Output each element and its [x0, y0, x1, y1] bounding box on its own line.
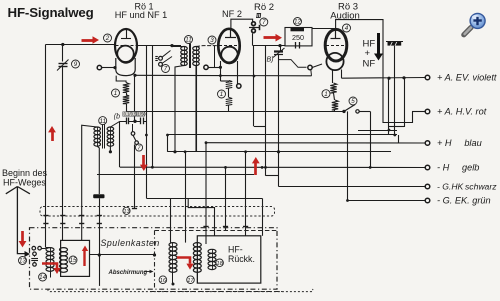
bus y=135	[168, 134, 398, 136]
wire x=196	[196, 66, 198, 152]
label circled 12	[294, 18, 302, 26]
wire x=167.5	[167, 135, 169, 152]
tube NF2 envelope	[218, 29, 239, 63]
wire stair y=207.6	[188, 198, 214, 236]
red arrow 3 (up, left)	[51, 131, 54, 141]
svg-text:15: 15	[70, 257, 77, 264]
svg-text:9: 9	[74, 61, 78, 68]
svg-text:- G.HK schwarz: - G.HK schwarz	[437, 182, 497, 192]
svg-text:0,1/0,5: 0,1/0,5	[124, 111, 137, 116]
T2 bottom-right lead	[109, 146, 111, 152]
bus y=174.6	[97, 174, 254, 176]
tube Rö3 lower circle	[326, 53, 343, 70]
grid terminal G1	[97, 65, 101, 69]
svg-text:Spulenkasten: Spulenkasten	[101, 238, 160, 248]
label circled 17	[187, 276, 195, 284]
tube Rö1 envelope	[115, 29, 137, 63]
tube NF2 grid terminal	[204, 65, 208, 69]
terminal + A. EV. violett	[425, 75, 430, 80]
red arrow 6 (down)	[21, 231, 24, 242]
wire x=412 + rot terminal lead	[412, 112, 414, 124]
coil16/17 bottom stubs	[172, 272, 174, 284]
label circled 15	[69, 256, 77, 264]
tube Rö3 anode resistor chain	[332, 70, 334, 83]
tube Rö1 lower envelope	[116, 58, 135, 76]
shield box Spulenkasten	[30, 228, 278, 290]
svg-text:2: 2	[105, 35, 110, 42]
NF2 grid top wire + switch	[231, 19, 253, 29]
bus grün y=200.5	[348, 200, 426, 202]
wire y=127	[389, 126, 404, 128]
label circled 9	[72, 60, 80, 68]
wire x=225.5 box2 feed	[225, 167, 227, 230]
T1 primary terminals	[159, 56, 163, 60]
svg-text:7: 7	[164, 66, 168, 73]
switch S7 (T2)	[131, 132, 135, 136]
coil L18	[212, 249, 214, 269]
cap connection leads	[129, 121, 141, 123]
svg-text:+ A. H.V. rot: + A. H.V. rot	[437, 107, 487, 117]
grid capacitor box 250	[285, 28, 312, 46]
wire y=75	[135, 74, 312, 77]
wire anode line y=78 to violett terminal	[342, 77, 426, 80]
svg-text:HF-: HF-	[228, 245, 243, 255]
wire trimmer to tube3 cathode terminal	[279, 58, 307, 68]
connector blob	[93, 194, 104, 198]
wire foot x=206	[203, 226, 208, 228]
wire x=404 down	[404, 78, 406, 127]
tube NF2 anode circle	[221, 47, 238, 64]
terminal + H&#160;&#160;&#160;&#160;&#160;blau	[425, 141, 430, 146]
svg-text:HF-Signalweg: HF-Signalweg	[8, 5, 94, 20]
svg-text:7: 7	[262, 19, 266, 26]
label circled 5	[349, 97, 357, 105]
label circled 18	[216, 259, 224, 267]
wire x=389	[388, 78, 390, 135]
dotted connector strip	[40, 207, 275, 217]
wires into inner box	[245, 232, 247, 236]
black arrow HF+NF	[377, 33, 380, 55]
wire x=347.5 grün feed	[347, 111, 349, 200]
svg-text:4: 4	[345, 25, 349, 32]
label circled 3	[208, 36, 216, 44]
label circled 2	[104, 34, 112, 42]
transformer T1 left coil	[184, 47, 186, 66]
antenna	[6, 187, 18, 194]
junction dots	[166, 134, 169, 137]
T1 bottom-right lead	[195, 66, 197, 152]
svg-text:1: 1	[220, 91, 223, 98]
svg-text:Rückk.: Rückk.	[228, 254, 255, 264]
wire x=278.5 schwarz feed	[278, 55, 280, 187]
switch (wave selector)	[32, 246, 36, 250]
dotted bottom line	[48, 289, 313, 292]
wire y=126.3	[254, 126, 266, 128]
wire coil16 feed	[170, 198, 172, 242]
svg-text:- G. EK. grün: - G. EK. grün	[437, 196, 491, 206]
red arrow 5 (up, mid)	[254, 162, 257, 175]
T1 bottom-left lead	[175, 66, 184, 152]
terminal + A. H.V. rot	[425, 109, 430, 114]
T1 top-right lead	[196, 45, 219, 48]
svg-text:14: 14	[39, 274, 46, 281]
wire top-left horizontal y=44.5	[46, 44, 116, 46]
wire y=141->264 connector	[205, 143, 207, 244]
wire foot x=45.9	[43, 215, 48, 217]
bus schwarz y=186.5	[279, 186, 426, 188]
red arrow 4 (down)	[142, 155, 145, 166]
label circled 16	[159, 276, 167, 284]
tube NF2 left leg long	[220, 61, 222, 81]
bus y=130 right	[358, 130, 397, 132]
capacitor Cb2	[140, 118, 142, 125]
transformer T2 left coil	[97, 127, 99, 146]
wire x=148 to coil16	[146, 198, 262, 200]
wire x=158.5	[146, 46, 148, 199]
wire foot x=245.6	[243, 226, 248, 228]
red arrow 8 (up, in box)	[83, 250, 85, 266]
label circled 4	[343, 24, 351, 32]
svg-text:1: 1	[114, 90, 117, 97]
svg-text:HF und NF 1: HF und NF 1	[115, 10, 168, 20]
tube NF2 right leg	[237, 61, 239, 84]
svg-text:+ A. EV. violett: + A. EV. violett	[437, 73, 497, 83]
svg-text:B): B)	[267, 57, 274, 64]
label circled 7 (T2)	[135, 144, 142, 151]
wire x=185.1 box2 feed	[185, 152, 187, 243]
svg-text:13: 13	[123, 209, 130, 215]
wire x=262 end of stair	[262, 198, 264, 236]
coil L14	[50, 248, 52, 272]
svg-text:17: 17	[187, 278, 194, 284]
coil L15	[60, 248, 68, 252]
svg-text:11: 11	[99, 118, 105, 125]
wire foot x=99.3	[97, 215, 102, 217]
tube Rö3 grid top wire to x=383	[336, 20, 383, 123]
transformer T1 right coil	[196, 47, 198, 66]
switch S5	[342, 110, 345, 113]
svg-text:1: 1	[324, 91, 327, 98]
svg-text:(b: (b	[114, 114, 120, 121]
terminal - H&#160;&#160;&#160;&#160;&#160;gelb	[425, 165, 430, 170]
label circled 1 (NF2)	[218, 90, 226, 98]
shield partition	[154, 231, 156, 289]
wire b bus y=120.3	[120, 121, 126, 123]
T2 top-right lead	[110, 121, 120, 127]
wire x=214 grid feed	[214, 46, 216, 68]
transformer T2 label circled 11	[99, 117, 107, 125]
wire foot x=225.5	[223, 226, 228, 228]
tube Rö3 envelope	[325, 29, 347, 61]
wire foot x=81.7	[79, 215, 84, 217]
wire y=45.6 to grid box	[253, 45, 285, 47]
NF2 cathode resistor chain	[220, 67, 229, 81]
terminal - G.HK&#8201;schwarz	[425, 184, 430, 189]
transformer T2 core	[102, 125, 104, 149]
bus gelb y=167.4	[120, 166, 425, 168]
label circled 13 strip	[123, 207, 130, 214]
label circled 7 (Rö2)	[260, 18, 268, 26]
wire x=117.8	[119, 121, 121, 167]
red arrow 2	[264, 36, 277, 39]
bus y=151.8	[168, 151, 392, 153]
wire switch down x=252.8	[252, 33, 254, 45]
resistor (hatched) top right	[388, 41, 402, 45]
wire x=253.5 (Rö2 chain)	[253, 46, 255, 127]
coilA bottom stub	[50, 271, 52, 277]
wire S7 drop x=134	[134, 145, 136, 210]
label circled 1 (Rö1)	[112, 89, 120, 97]
svg-text:3: 3	[210, 37, 214, 44]
inner box HF-Rückk	[197, 236, 260, 283]
red arrow 1	[82, 39, 94, 42]
coil L17	[197, 243, 199, 273]
wire resistor lead down	[394, 46, 396, 135]
wire y=45.6 tube1->T1	[137, 45, 181, 47]
wire vertical x=63 upper	[62, 45, 64, 62]
T2 top-left lead	[82, 125, 98, 240]
svg-text:11: 11	[185, 37, 191, 44]
wire y=123	[383, 122, 412, 124]
tube Rö3 right leg to anode line	[341, 70, 343, 79]
svg-text:16: 16	[160, 278, 167, 284]
svg-text:Abschirmung: Abschirmung	[108, 270, 148, 276]
tube Rö1 anode circle	[117, 46, 133, 62]
tube Rö1 right leg	[134, 76, 136, 122]
tube Rö1 left leg + cathode resistor chain	[116, 76, 126, 83]
T1 top-left lead	[172, 45, 184, 48]
wire box1 to partition	[90, 254, 155, 256]
III mark	[257, 13, 261, 15]
svg-text:- H gelb: - H gelb	[437, 163, 479, 173]
T2 bottom-left lead	[97, 146, 99, 194]
svg-text:Rö 2: Rö 2	[254, 2, 274, 13]
svg-text:18: 18	[216, 261, 223, 267]
solid box L15	[61, 240, 90, 276]
wire vertical x=63 lower	[62, 67, 64, 241]
svg-text:1/50: 1/50	[138, 111, 147, 116]
bus y=111.4	[126, 111, 344, 113]
trimmer B	[274, 50, 283, 52]
label circled 1 (Rö3)	[322, 90, 330, 98]
svg-text:12: 12	[294, 19, 301, 26]
svg-text:13: 13	[19, 258, 26, 265]
wire left vertical x=46	[45, 45, 47, 248]
red arrow 7 (elbow)	[42, 264, 57, 269]
label circled 14	[39, 273, 47, 281]
svg-text:250: 250	[292, 33, 304, 42]
svg-text:NF 2: NF 2	[222, 9, 242, 19]
wire jog y=175.8	[266, 175, 279, 177]
svg-text:Beginn des: Beginn des	[2, 168, 48, 178]
wire x=398 blau feed	[398, 135, 400, 143]
svg-text:5: 5	[351, 98, 355, 105]
transformer T2 right coil	[110, 127, 112, 146]
tube Rö1 grid	[126, 29, 128, 38]
transformer T1 core	[189, 44, 191, 69]
wire x=370 gelb feed	[370, 111, 372, 167]
terminal - G. EK. gr&#252;n	[425, 198, 430, 203]
svg-text:NF: NF	[363, 59, 376, 70]
capacitor C9 variable	[59, 63, 68, 65]
label circled 13	[19, 257, 27, 265]
svg-text:+ H blau: + H blau	[437, 138, 482, 148]
coil L16	[172, 243, 174, 273]
tube NF2 grid	[230, 29, 232, 38]
svg-text:+: +	[365, 48, 371, 59]
wire x=154.6	[152, 46, 154, 168]
label circled 7 (T1)	[162, 65, 170, 73]
capacitor Cb1	[126, 118, 128, 125]
wire x=245.3 anode feedback	[245, 152, 247, 236]
node junction (62.6,44.5)	[61, 43, 64, 46]
transformer T1 label circled 11	[185, 36, 193, 44]
red arrow 9 (elbow)	[177, 258, 190, 264]
wire foot x=62.8	[60, 215, 65, 217]
tube Rö3 grid	[335, 30, 337, 39]
wire 250 box to tube3 grid	[312, 28, 336, 30]
bus blau y=142.7	[206, 142, 425, 144]
svg-text:HF-Weges: HF-Weges	[3, 178, 46, 188]
